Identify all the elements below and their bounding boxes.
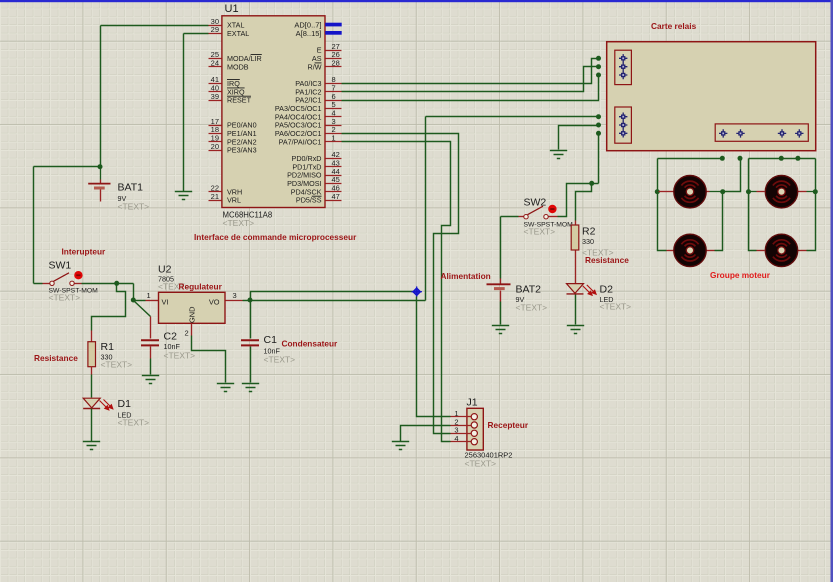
wire EXTAL pin29 to ground xyxy=(184,34,209,192)
svg-text:2: 2 xyxy=(185,329,189,338)
motor M2 xyxy=(765,176,797,208)
svg-text:PD5/SS: PD5/SS xyxy=(296,196,322,205)
svg-text:<TEXT>: <TEXT> xyxy=(118,202,150,212)
motor M1 stubs xyxy=(659,191,675,193)
relay board connector block top-left xyxy=(615,50,632,84)
wire node down to R2 xyxy=(576,184,592,221)
node BAT1 top junction xyxy=(98,164,103,169)
wire relay dot5 to ground xyxy=(559,126,599,150)
node relay connection dot 6 xyxy=(596,131,601,136)
svg-text:D2: D2 xyxy=(600,284,614,296)
svg-text:J1: J1 xyxy=(467,397,478,409)
node right loop top dot A xyxy=(779,156,784,161)
sheet border right xyxy=(831,0,833,582)
svg-text:Recepteur: Recepteur xyxy=(488,420,529,430)
svg-text:Regulateur: Regulateur xyxy=(179,282,223,292)
node relay connection dot 3 xyxy=(596,73,601,78)
svg-text:<TEXT>: <TEXT> xyxy=(516,303,548,313)
wire right motor loop xyxy=(749,159,816,251)
relay board connector block bottom-right xyxy=(715,124,808,141)
svg-text:Interupteur: Interupteur xyxy=(62,247,107,257)
svg-text:39: 39 xyxy=(211,92,219,101)
svg-text:<TEXT>: <TEXT> xyxy=(164,351,196,361)
wire junction A staircase down to R1 xyxy=(92,284,126,331)
svg-text:3: 3 xyxy=(233,291,237,300)
svg-text:EXTAL: EXTAL xyxy=(227,29,249,38)
svg-text:GND: GND xyxy=(188,307,197,323)
ground at J1 pin2 xyxy=(392,442,409,450)
svg-text:R/W: R/W xyxy=(308,62,322,71)
ground at EXTAL xyxy=(175,192,192,200)
U1 left pin stubs xyxy=(209,26,222,201)
svg-text:Condensateur: Condensateur xyxy=(282,339,339,349)
svg-text:21: 21 xyxy=(211,192,219,201)
node junction B at U2 VI xyxy=(131,298,136,303)
svg-text:PE3/AN3: PE3/AN3 xyxy=(227,146,257,155)
ground on dot5 net xyxy=(550,151,567,159)
svg-text:1: 1 xyxy=(332,134,336,143)
svg-text:C2: C2 xyxy=(164,331,178,343)
relay board connector block bottom-left xyxy=(615,107,632,143)
node junction A xyxy=(114,281,119,286)
svg-text:U1: U1 xyxy=(225,3,239,15)
wire VO node up and right to blue diamond node xyxy=(251,292,415,301)
motor M1 xyxy=(674,176,706,208)
ground below BAT2 xyxy=(492,326,509,334)
svg-text:MODB: MODB xyxy=(227,62,249,71)
svg-text:28: 28 xyxy=(332,59,340,68)
wire left motor loop top xyxy=(658,158,723,160)
microcontroller U1 MC68HC11A8 body xyxy=(222,16,325,208)
switch SW2 SW-SPST-MOM xyxy=(501,216,519,218)
node M1 left xyxy=(655,189,660,194)
svg-text:24: 24 xyxy=(211,59,219,68)
U1 A[8..15] bus pin xyxy=(325,31,342,35)
svg-text:D1: D1 xyxy=(118,398,132,410)
svg-text:VI: VI xyxy=(162,297,169,306)
svg-text:1: 1 xyxy=(147,291,151,300)
wire branch to SW1 left xyxy=(34,167,101,284)
resistor R1 330 xyxy=(91,331,93,342)
motor M3 stubs xyxy=(667,250,675,252)
ground below U2 xyxy=(217,384,234,392)
wire PA0 pin8 to relay dot1 xyxy=(342,59,599,84)
node relay connection dot 4 xyxy=(596,114,601,119)
svg-text:47: 47 xyxy=(332,192,340,201)
svg-text:Groupe moteur: Groupe moteur xyxy=(710,270,771,280)
wire diagonal junction B to C2 xyxy=(134,301,151,317)
wire VO node to vertical riser x425 xyxy=(251,117,426,301)
LED D1 xyxy=(83,398,100,408)
node right loop top dot B xyxy=(795,156,800,161)
wire link down to left motor loop right side xyxy=(723,159,741,192)
svg-text:<TEXT>: <TEXT> xyxy=(264,355,296,365)
motor M2 stubs xyxy=(749,191,757,193)
svg-text:PA7/PAI/OC1: PA7/PAI/OC1 xyxy=(279,137,322,146)
node VO junction xyxy=(248,298,253,303)
battery BAT2 xyxy=(500,217,502,279)
ground below D2 xyxy=(567,326,584,334)
svg-text:R2: R2 xyxy=(582,226,596,238)
relay board outline xyxy=(607,42,816,151)
svg-text:<TEXT>: <TEXT> xyxy=(600,302,632,312)
sheet border top xyxy=(0,0,833,2)
capacitor C2 10nF xyxy=(150,317,152,339)
node left loop top end xyxy=(720,156,725,161)
svg-text:330: 330 xyxy=(582,237,594,246)
node relay connection dot 5 xyxy=(596,123,601,128)
wire J1 pin2 to ground xyxy=(401,426,451,442)
svg-text:BAT2: BAT2 xyxy=(516,284,542,296)
overlines for active-low pins xyxy=(251,54,262,56)
wire relay dot6 down to SW2/R2 node xyxy=(558,134,599,217)
wire junction B to U2 VI pin xyxy=(134,300,146,302)
svg-text:4: 4 xyxy=(454,434,458,443)
LED D2 xyxy=(567,284,584,294)
motor M4 stubs xyxy=(757,250,765,252)
svg-text:Carte relais: Carte relais xyxy=(651,21,697,31)
motor M4 xyxy=(765,234,797,266)
svg-text:BAT1: BAT1 xyxy=(118,182,144,194)
node relay connection dot 1 xyxy=(596,56,601,61)
relay board terminal markers xyxy=(619,54,627,62)
wire left motor loop left side xyxy=(658,159,667,251)
wire riser top to carte relais dot4 xyxy=(426,116,599,118)
node M2 left xyxy=(746,189,751,194)
svg-text:VO: VO xyxy=(209,297,220,306)
svg-text:SW1: SW1 xyxy=(49,260,72,272)
svg-text:Interface de commande micropro: Interface de commande microprocesseur xyxy=(194,232,357,242)
switch SW1 SW-SPST-MOM xyxy=(43,283,50,285)
wire PA1 pin7 to relay dot2 xyxy=(342,67,599,92)
node relay connection dot 2 xyxy=(596,64,601,69)
wire PA7 pin1 staircase to J1 pin4 xyxy=(342,142,451,442)
regulator U2 7805 xyxy=(159,292,226,323)
svg-text:<TEXT>: <TEXT> xyxy=(465,459,497,469)
wire PA2 pin6 to relay dot3 xyxy=(342,76,599,101)
motor M3 xyxy=(674,234,706,266)
wire D1 to ground xyxy=(91,409,93,442)
wire blue diamond down to J1 pin 1 xyxy=(417,297,451,417)
wire XTAL pin30 to node xyxy=(101,25,209,27)
U1 right pin stubs xyxy=(326,51,342,201)
connector J1 25630401RP2 xyxy=(467,408,483,450)
battery BAT1 xyxy=(100,167,102,180)
U2 GND pin to ground xyxy=(191,324,193,336)
U2 VO pin stub xyxy=(226,300,243,302)
svg-text:VRL: VRL xyxy=(227,196,241,205)
wire PA6 pin2 staircase to J1 pin3 xyxy=(342,134,459,434)
svg-text:SW2: SW2 xyxy=(524,197,547,209)
node at x591.7 y183.3 xyxy=(589,181,594,186)
svg-text:Alimentation: Alimentation xyxy=(441,271,491,281)
wire left motor loop right side xyxy=(715,192,723,251)
svg-text:<TEXT>: <TEXT> xyxy=(101,360,133,370)
svg-text:R1: R1 xyxy=(101,341,115,353)
svg-text:<TEXT>: <TEXT> xyxy=(524,227,556,237)
svg-text:A[8..15]: A[8..15] xyxy=(296,29,322,38)
ground below C1 xyxy=(242,384,259,392)
node blue diamond junction xyxy=(411,286,422,297)
svg-text:<TEXT>: <TEXT> xyxy=(223,218,255,228)
svg-text:<TEXT>: <TEXT> xyxy=(118,418,150,428)
node M1 right xyxy=(720,189,725,194)
wire junction A to junction B xyxy=(117,284,134,301)
node M2 right xyxy=(813,189,818,194)
ground below C2 xyxy=(142,376,159,384)
wire D2 to ground xyxy=(575,295,577,325)
capacitor C1 10nF xyxy=(250,301,252,339)
svg-text:Resistance: Resistance xyxy=(34,353,78,363)
ground below D1 xyxy=(83,442,100,450)
svg-text:29: 29 xyxy=(211,25,219,34)
svg-text:Resistance: Resistance xyxy=(585,255,629,265)
svg-text:C1: C1 xyxy=(264,334,278,346)
svg-text:<TEXT>: <TEXT> xyxy=(49,293,81,303)
wire SW1 to junction A xyxy=(82,283,117,285)
node top of link xyxy=(738,156,743,161)
resistor R2 330 xyxy=(575,221,577,226)
wire R1 to D1 xyxy=(91,375,93,398)
svg-text:20: 20 xyxy=(211,142,219,151)
svg-text:RESET: RESET xyxy=(227,96,252,105)
U1 AD[0..7] bus pin xyxy=(325,23,342,27)
wire vertical to BAT1 node xyxy=(100,26,102,167)
